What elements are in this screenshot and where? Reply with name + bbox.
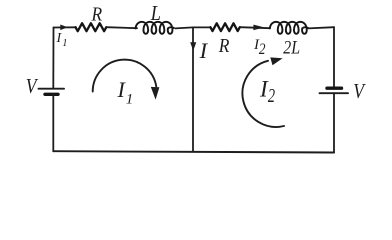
battery V1 (left): long thin plate on top: [39, 88, 65, 90]
current arrow I1 on top-left wire: [60, 25, 68, 31]
wire: right vertical from battery V2 down to bottom corner: [333, 93, 335, 152]
svg-text:2: 2: [259, 41, 266, 58]
middle vertical wire (node branch): [192, 27, 194, 151]
svg-text:2L: 2L: [283, 38, 300, 58]
resistor R1 zigzag: [76, 23, 107, 31]
battery V2 (right): short thick plate on top: [327, 86, 342, 89]
resistor R2 zigzag: [210, 23, 239, 31]
inductor L1 coil: [136, 22, 174, 34]
wire: between R1 and inductor L1: [106, 27, 137, 28]
wire: top-left horizontal segment from left corner to resistor R1: [54, 26, 77, 28]
svg-text:1: 1: [62, 38, 67, 49]
svg-text:R: R: [91, 3, 103, 26]
inductor L2 (2L) coil: [270, 22, 308, 34]
wire: from 2L to top-right corner: [309, 27, 335, 28]
svg-text:V: V: [26, 74, 39, 98]
wire: left vertical from top corner down to battery V1 top plate: [52, 28, 54, 89]
battery V1 (left): short thick plate below: [45, 93, 58, 96]
wire: right vertical from top corner down to battery V2: [333, 27, 335, 88]
mesh current arc I2 (clockwise, right loop): [242, 61, 284, 127]
svg-text:I: I: [199, 38, 209, 63]
current arrow I (downward on middle wire): [190, 42, 196, 51]
svg-text:2: 2: [268, 84, 275, 107]
svg-text:L: L: [150, 2, 161, 26]
svg-text:1: 1: [126, 91, 134, 107]
current arrow I2 on wire before 2L: [253, 25, 264, 31]
battery V2 (right): long thin plate below: [320, 92, 349, 94]
wire: from L1 to middle junction and on to resistor R2: [176, 27, 211, 28]
wire: bottom horizontal: [53, 151, 334, 152]
svg-text:R: R: [218, 35, 230, 58]
svg-text:V: V: [353, 79, 366, 103]
mesh arrowhead I2: [270, 57, 282, 65]
wire: left vertical from battery V1 down to bottom corner: [52, 94, 54, 151]
mesh current arc I1 (clockwise, left loop): [93, 60, 157, 92]
mesh arrowhead I1: [151, 87, 160, 100]
wire: between R2 and inductor 2L with current arrow: [240, 27, 270, 28]
